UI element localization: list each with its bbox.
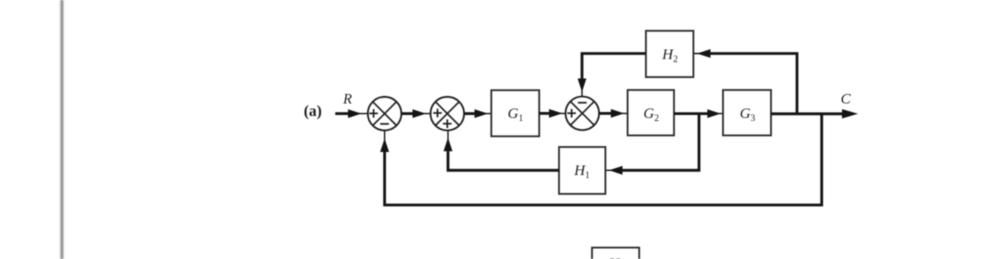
- page margin rule: [60, 0, 63, 259]
- arrowhead into summing junction 1: [348, 109, 362, 118]
- wire G1 to S3: [539, 112, 565, 114]
- block H2: [646, 31, 694, 77]
- arrowhead into G3: [707, 109, 721, 118]
- wire S1 to S2: [402, 113, 431, 115]
- wire outer feedback loop: [385, 114, 822, 205]
- S3 left plus sign: [567, 109, 576, 118]
- wire S2 to G1: [464, 113, 491, 115]
- block G2: [628, 90, 674, 135]
- arrowhead into G2: [611, 109, 625, 118]
- thin bridge into S2 bottom: [447, 131, 449, 147]
- arrowhead into summing junction 3: [549, 109, 563, 118]
- wire H2 to S3: [582, 54, 646, 84]
- arrowhead up into S1: [380, 139, 389, 153]
- thin bridge into H1: [605, 169, 624, 171]
- summing junction S3: [566, 97, 600, 131]
- output arrowhead: [842, 109, 858, 118]
- thin bridge into S1 bottom: [384, 131, 386, 148]
- thin bridge into H2: [693, 53, 712, 55]
- block G1: [491, 90, 539, 136]
- wire takeoff down to H1: [622, 114, 699, 171]
- S3 top minus sign: [578, 102, 587, 104]
- arrowhead down into S3: [578, 79, 587, 93]
- S1 plus sign: [369, 109, 378, 118]
- thin bridge into S3 top: [581, 83, 583, 96]
- wire H1 to S2: [448, 146, 559, 170]
- summing junction S1: [368, 97, 402, 131]
- wire S3 to G2: [599, 112, 627, 114]
- wire G2 to G3: [674, 113, 723, 115]
- partial block of diagram (b): [592, 248, 639, 259]
- S2 bottom plus sign: [443, 119, 452, 128]
- block H1: [559, 147, 605, 194]
- arrowhead into H1: [609, 166, 623, 175]
- arrowhead into G1: [475, 109, 489, 118]
- arrowhead into H2: [697, 49, 711, 58]
- wire takeoff up to H2: [710, 54, 797, 114]
- wire G3 to output C: [771, 112, 843, 115]
- S1 minus sign: [380, 123, 389, 125]
- arrowhead up into S2: [444, 138, 453, 152]
- svg-text:C: C: [841, 91, 852, 107]
- summing junction S2: [431, 97, 465, 131]
- svg-text:R: R: [342, 92, 352, 108]
- block G3: [723, 90, 771, 135]
- arrowhead into summing junction 2: [413, 109, 427, 118]
- S2 left plus sign: [433, 109, 442, 118]
- svg-text:(a): (a): [304, 103, 322, 120]
- wire input R: [335, 113, 368, 115]
